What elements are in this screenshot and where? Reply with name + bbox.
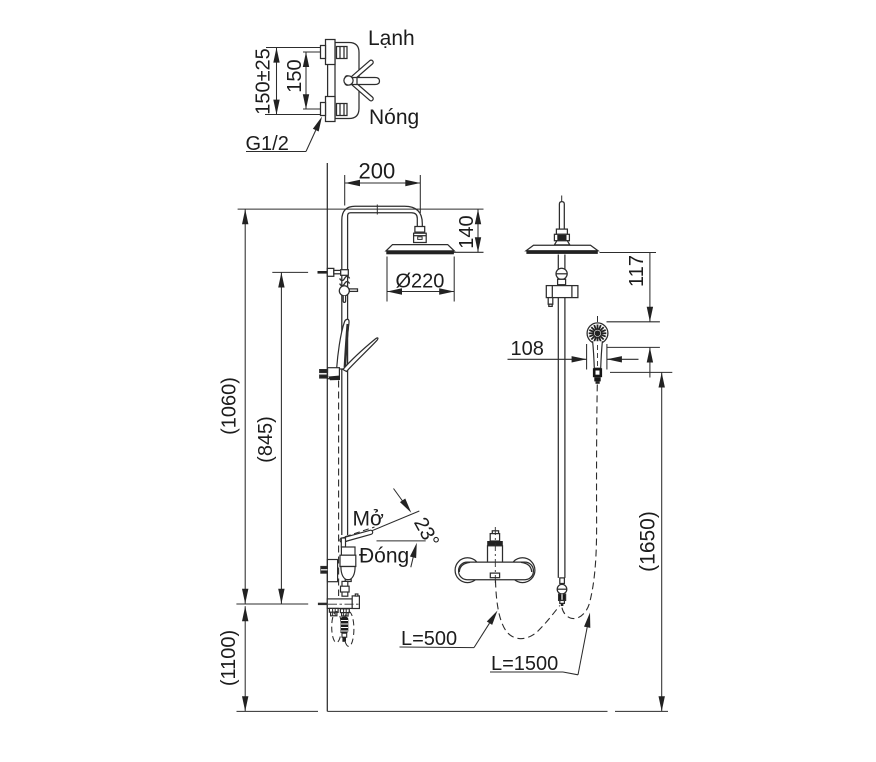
- svg-text:108: 108: [511, 338, 544, 360]
- svg-text:(1650): (1650): [637, 511, 660, 572]
- svg-text:L=500: L=500: [401, 628, 457, 650]
- svg-text:L=1500: L=1500: [491, 653, 558, 675]
- svg-text:Đóng: Đóng: [359, 545, 409, 568]
- svg-text:(845): (845): [255, 416, 277, 463]
- svg-text:Mở: Mở: [353, 508, 384, 531]
- svg-text:(1060): (1060): [219, 377, 241, 435]
- svg-text:Ø220: Ø220: [396, 271, 445, 293]
- svg-text:(1100): (1100): [218, 630, 240, 686]
- svg-text:117: 117: [626, 255, 648, 287]
- svg-text:Nóng: Nóng: [369, 106, 419, 129]
- svg-text:23°: 23°: [409, 514, 443, 551]
- svg-text:Lạnh: Lạnh: [368, 27, 415, 50]
- svg-text:150: 150: [284, 59, 306, 92]
- svg-text:200: 200: [359, 159, 396, 184]
- svg-text:140: 140: [456, 215, 478, 248]
- svg-text:150±25: 150±25: [253, 48, 275, 115]
- svg-text:G1/2: G1/2: [246, 133, 289, 155]
